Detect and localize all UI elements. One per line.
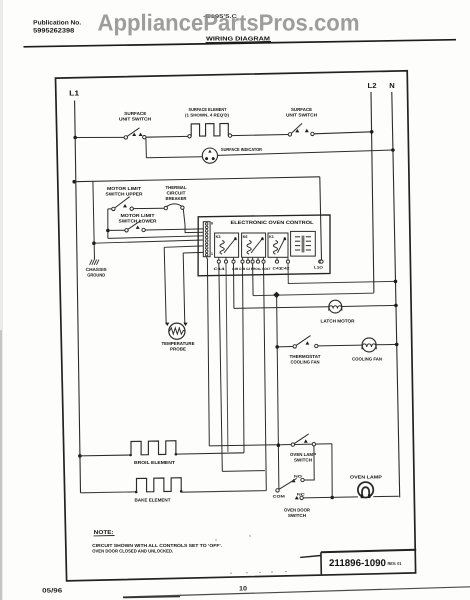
svg-text:OVEN LAMP: OVEN LAMP [350,475,382,480]
svg-text:AppliancePartsPros.com: AppliancePartsPros.com [98,9,360,35]
svg-text:L1O: L1O [314,265,323,269]
svg-text:MOTOR LIMIT: MOTOR LIMIT [107,186,141,191]
svg-text:SWITCH: SWITCH [288,513,306,518]
svg-text:SURFACE INDICATOR: SURFACE INDICATOR [221,147,263,152]
svg-text:PROBE: PROBE [170,346,186,351]
svg-text:BREAKER: BREAKER [166,196,188,201]
svg-text:SWITCH LOWER: SWITCH LOWER [119,218,158,223]
svg-text:NC: NC [297,492,306,496]
svg-text:10: 10 [239,585,248,592]
svg-text:SURFACE: SURFACE [291,107,312,112]
svg-text:BROIL ELEMENT: BROIL ELEMENT [134,460,175,465]
svg-text:NOTE:: NOTE: [94,530,114,536]
svg-text:L1: L1 [69,89,79,98]
svg-text:LATCH MOTOR: LATCH MOTOR [321,318,356,323]
svg-text:SWITCH UPPER: SWITCH UPPER [106,191,144,196]
svg-text:OVEN DOOR CLOSED AND UNLOCKED.: OVEN DOOR CLOSED AND UNLOCKED. [92,549,173,554]
svg-text:OVEN LAMP: OVEN LAMP [290,452,316,457]
svg-text:(1 SHOWN, 4 REQ'D): (1 SHOWN, 4 REQ'D) [185,113,230,118]
svg-text:SURFACE ELEMENT: SURFACE ELEMENT [189,107,227,112]
svg-text:ELECTRONIC OVEN CONTROL: ELECTRONIC OVEN CONTROL [231,220,314,226]
svg-text:REV: 01: REV: 01 [388,561,403,566]
svg-text:C4B C4B C2 BRO1L BO1T: C4B C4B C2 BRO1L BO1T [232,267,271,271]
svg-text:CIRCUIT SHOWN WITH ALL CONTROL: CIRCUIT SHOWN WITH ALL CONTROLS SET TO ‘… [92,543,222,548]
svg-text:05/96: 05/96 [42,587,63,594]
svg-text:Publication No.: Publication No. [33,20,81,27]
svg-text:SURFACE: SURFACE [124,111,146,116]
svg-text:K1: K1 [269,235,274,239]
svg-text:K3: K3 [216,235,221,239]
svg-text:GROUND: GROUND [87,273,105,278]
svg-text:COOLING FAN: COOLING FAN [352,356,382,361]
svg-text:THERMOSTAT: THERMOSTAT [290,354,321,359]
svg-text:CHASSIS: CHASSIS [86,267,107,272]
svg-text:SWITCH: SWITCH [294,457,312,462]
svg-text:K6: K6 [243,235,248,239]
svg-text:UNIT SWITCH: UNIT SWITCH [119,116,151,121]
svg-text:NO: NO [294,475,302,479]
svg-text:UNIT SWITCH: UNIT SWITCH [286,113,317,118]
svg-text:MOTOR LIMIT: MOTOR LIMIT [121,213,155,218]
svg-text:THERMAL: THERMAL [166,185,187,190]
svg-text:CIRCUIT: CIRCUIT [167,190,186,195]
svg-text:211896-1090: 211896-1090 [329,558,386,569]
svg-text:N: N [389,81,395,90]
svg-text:TEMPERATURE: TEMPERATURE [162,341,195,346]
svg-text:L2: L2 [368,81,377,90]
svg-text:COM: COM [273,495,285,499]
svg-text:BAKE ELEMENT: BAKE ELEMENT [135,498,171,503]
svg-text:1: 1 [211,252,213,256]
svg-text:8: 8 [211,222,213,226]
svg-text:5995262398: 5995262398 [33,27,75,34]
svg-text:COOLING FAN: COOLING FAN [291,359,320,364]
svg-text:OVEN DOOR: OVEN DOOR [284,507,311,512]
